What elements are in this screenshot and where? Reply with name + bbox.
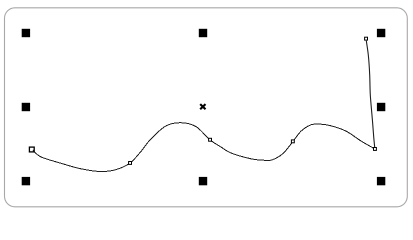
curve node 4 [291,140,294,143]
freehand curve [34,123,375,172]
selection handle top-middle [199,29,207,37]
start node square [29,147,34,152]
curve node 5 [374,148,377,151]
selection handle bottom-left [22,177,30,185]
center-of-selection x marker [200,104,205,109]
selection handle top-right [377,29,385,37]
selection handle middle-left [22,103,30,111]
curve node 3 [209,138,212,141]
selection handle bottom-middle [199,177,207,185]
curve node 2 [129,162,132,165]
near-vertical end segment [366,41,375,149]
selection handle top-left [22,29,30,37]
selection handle middle-right [377,103,385,111]
end node square [365,37,368,40]
selection handle bottom-right [377,177,385,185]
curve start point dot [33,150,35,152]
